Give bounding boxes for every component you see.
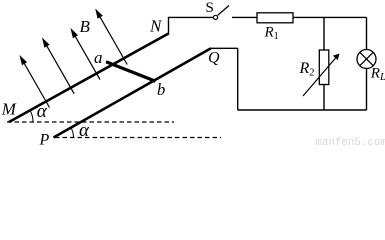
wire R1 to top-right corner bbox=[293, 16, 367, 18]
angle arc at P bbox=[71, 128, 74, 138]
wire Q corner right bbox=[211, 47, 238, 49]
rail PQ (lower inclined rail) bbox=[54, 48, 212, 137]
resistor R1 bbox=[257, 13, 293, 23]
svg-text:B: B bbox=[80, 17, 91, 36]
svg-text:α: α bbox=[37, 101, 48, 122]
svg-text:Q: Q bbox=[208, 50, 220, 67]
switch S blade bbox=[218, 6, 229, 16]
svg-text:N: N bbox=[149, 16, 163, 35]
wire right branch down to lamp bbox=[366, 17, 368, 49]
dashed horizontal line at M bbox=[7, 121, 174, 123]
wire switch to R1 bbox=[232, 16, 257, 18]
field arrow 2 bbox=[42, 38, 74, 94]
wire R2 down to bottom bbox=[323, 85, 325, 111]
dashed horizontal line at P bbox=[55, 137, 221, 139]
svg-text:P: P bbox=[39, 131, 50, 146]
rheostat R2 bbox=[319, 50, 329, 85]
svg-text:M: M bbox=[1, 99, 17, 118]
rail MN (upper inclined rail) bbox=[9, 34, 169, 123]
svg-text:S: S bbox=[206, 0, 214, 16]
lamp RL bbox=[357, 50, 376, 69]
wire N corner up and right to switch bbox=[169, 17, 214, 34]
wire lamp down to bottom bbox=[366, 69, 368, 111]
switch S pivot circle bbox=[213, 15, 217, 19]
rod ab bbox=[106, 62, 156, 81]
angle arc at M bbox=[30, 110, 33, 122]
field arrow 4 bbox=[95, 9, 127, 65]
bottom wire bbox=[238, 109, 367, 111]
svg-text:a: a bbox=[94, 48, 103, 67]
wire R2 branch from top wire down bbox=[323, 17, 325, 50]
wire Q branch down bbox=[237, 48, 239, 110]
svg-text:manfen5.com: manfen5.com bbox=[316, 137, 385, 146]
field arrow 1 bbox=[20, 55, 50, 108]
rheostat arrow bbox=[303, 54, 340, 97]
svg-text:b: b bbox=[157, 80, 165, 99]
field arrow 3 bbox=[71, 28, 101, 80]
svg-text:α: α bbox=[79, 120, 90, 141]
